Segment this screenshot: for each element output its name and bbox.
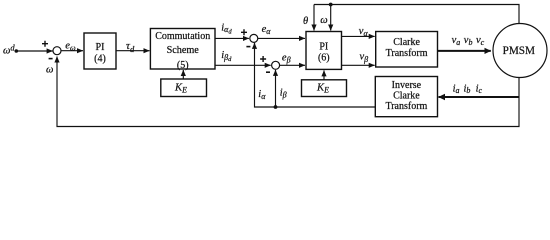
svg-text:vc: vc bbox=[476, 35, 485, 47]
svg-text:(5): (5) bbox=[177, 60, 189, 71]
svg-text:iβ: iβ bbox=[280, 88, 287, 100]
svg-text:(4): (4) bbox=[94, 54, 106, 65]
label plus S1 bbox=[42, 41, 48, 47]
svg-text:τd: τd bbox=[126, 40, 135, 54]
label minus S1 bbox=[49, 58, 53, 60]
wire v_abc bus bbox=[438, 50, 491, 52]
svg-text:PMSM: PMSM bbox=[503, 45, 535, 57]
machine PMSM bbox=[493, 24, 547, 78]
svg-text:PI: PI bbox=[96, 42, 105, 53]
svg-text:eω: eω bbox=[65, 41, 76, 53]
wire i_alpha arrow into e_alpha bbox=[254, 43, 256, 48]
svg-text:eβ: eβ bbox=[282, 53, 291, 65]
svg-text:Clarke: Clarke bbox=[393, 37, 420, 48]
node junction dot i_beta bbox=[274, 105, 278, 109]
label minus e_beta bbox=[266, 71, 270, 73]
svg-text:ω: ω bbox=[320, 15, 327, 26]
svg-text:Commutation: Commutation bbox=[155, 31, 210, 42]
wire bottom feedback bbox=[57, 58, 519, 127]
svg-text:iβd: iβd bbox=[221, 50, 232, 63]
svg-text:vα: vα bbox=[359, 26, 369, 38]
wire e_alpha to PI6 bbox=[258, 37, 305, 39]
svg-text:θ: θ bbox=[303, 16, 308, 27]
svg-text:Transform: Transform bbox=[386, 48, 428, 59]
wire v_alpha bbox=[342, 35, 375, 37]
wire i_abc bus bbox=[439, 96, 520, 98]
label plus e_alpha bbox=[241, 29, 247, 35]
op block PI6 bbox=[306, 32, 342, 70]
svg-text:vb: vb bbox=[464, 35, 473, 47]
node source dot omega-d bbox=[14, 49, 18, 53]
label minus e_alpha bbox=[246, 46, 250, 48]
wire feedback arrow into S1 bbox=[56, 57, 58, 64]
op block inverse clarke transform bbox=[375, 77, 437, 117]
op block KE1 bbox=[161, 79, 207, 97]
wire KE2 up arrow bbox=[323, 70, 325, 79]
label plus e_beta bbox=[260, 56, 266, 62]
svg-text:ib: ib bbox=[464, 83, 471, 95]
op block clarke transform bbox=[376, 32, 438, 68]
svg-text:Scheme: Scheme bbox=[167, 45, 200, 56]
wire e_beta to PI6 bbox=[280, 64, 305, 66]
svg-text:ωd: ωd bbox=[3, 42, 15, 56]
svg-text:vβ: vβ bbox=[360, 52, 369, 64]
svg-text:eα: eα bbox=[262, 24, 272, 36]
op block KE2 bbox=[302, 80, 347, 97]
wire top sensor line bbox=[314, 5, 519, 24]
summing junction S1 bbox=[53, 47, 61, 55]
wire i_beta up bbox=[275, 70, 277, 107]
svg-text:ic: ic bbox=[476, 83, 483, 95]
wire i_beta_d bbox=[215, 64, 271, 66]
wire v_beta bbox=[342, 64, 375, 66]
svg-text:va: va bbox=[452, 35, 461, 47]
svg-text:(6): (6) bbox=[318, 53, 330, 64]
svg-text:PI: PI bbox=[319, 42, 328, 53]
wire S1 to PI4 bbox=[61, 50, 83, 52]
op block commutation scheme bbox=[150, 29, 215, 70]
wire KE1 up arrow bbox=[182, 70, 184, 79]
summing junction e_beta bbox=[272, 61, 280, 69]
svg-text:iαd: iαd bbox=[221, 23, 232, 36]
wire PI4 to commutation bbox=[116, 50, 150, 52]
wire i_alpha_d bbox=[215, 37, 249, 39]
svg-text:iα: iα bbox=[258, 89, 266, 101]
wire inverse clarke output to the left bbox=[255, 43, 376, 107]
summing junction e_alpha bbox=[250, 34, 258, 42]
svg-text:ia: ia bbox=[453, 83, 460, 95]
svg-text:Clarke: Clarke bbox=[393, 90, 420, 101]
wire omega-d input bbox=[16, 50, 52, 52]
node junction dot top omega bbox=[329, 3, 333, 7]
svg-text:ω: ω bbox=[46, 65, 53, 76]
svg-text:Transform: Transform bbox=[385, 101, 427, 112]
wire omega drop bbox=[330, 5, 332, 31]
op block PI4 bbox=[84, 33, 116, 69]
wire theta drop bbox=[313, 5, 315, 31]
